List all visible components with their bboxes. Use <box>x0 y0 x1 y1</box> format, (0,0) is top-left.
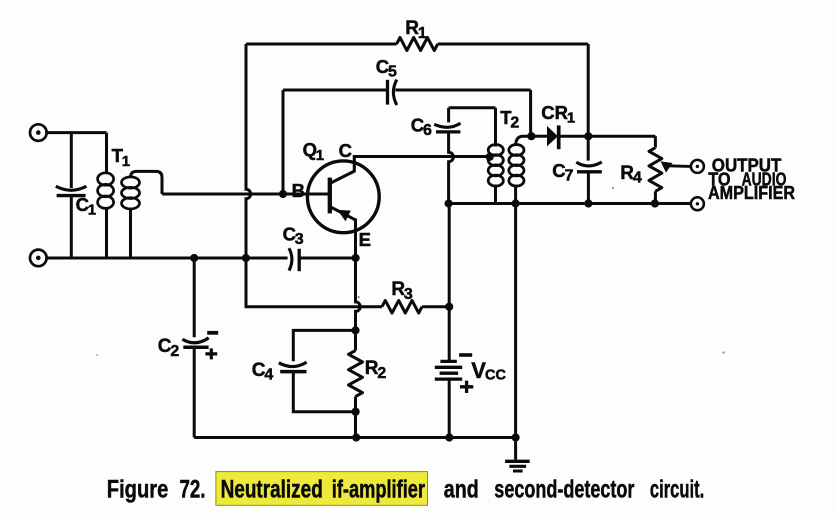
svg-text:R1: R1 <box>405 18 427 42</box>
svg-text:CR1: CR1 <box>541 102 575 127</box>
svg-text:T1: T1 <box>112 145 130 170</box>
svg-text:C7: C7 <box>552 160 573 185</box>
svg-text:C1: C1 <box>76 194 97 219</box>
svg-text:if-amplifier: if-amplifier <box>332 475 425 503</box>
svg-text:C5: C5 <box>376 56 397 81</box>
svg-text:C3: C3 <box>283 223 304 248</box>
svg-text:T2: T2 <box>500 107 519 132</box>
svg-text:R3: R3 <box>391 279 413 303</box>
svg-text:R2: R2 <box>365 358 387 382</box>
svg-text:C: C <box>339 140 352 161</box>
svg-text:E: E <box>359 229 371 250</box>
svg-text:VCC: VCC <box>471 358 506 384</box>
svg-text:circuit.: circuit. <box>650 475 704 503</box>
svg-text:AMPLIFIER: AMPLIFIER <box>708 183 795 203</box>
svg-text:B: B <box>292 180 305 201</box>
svg-text:Neutralized: Neutralized <box>221 475 323 503</box>
svg-text:C4: C4 <box>252 360 274 384</box>
svg-text:and: and <box>444 475 479 503</box>
svg-text:second-detector: second-detector <box>494 475 634 503</box>
svg-text:R4: R4 <box>620 163 642 187</box>
svg-text:Q1: Q1 <box>303 139 325 164</box>
svg-text:C2: C2 <box>158 336 180 360</box>
svg-text:C6: C6 <box>411 114 432 139</box>
svg-text:72.: 72. <box>180 475 206 503</box>
svg-text:Figure: Figure <box>107 475 169 503</box>
